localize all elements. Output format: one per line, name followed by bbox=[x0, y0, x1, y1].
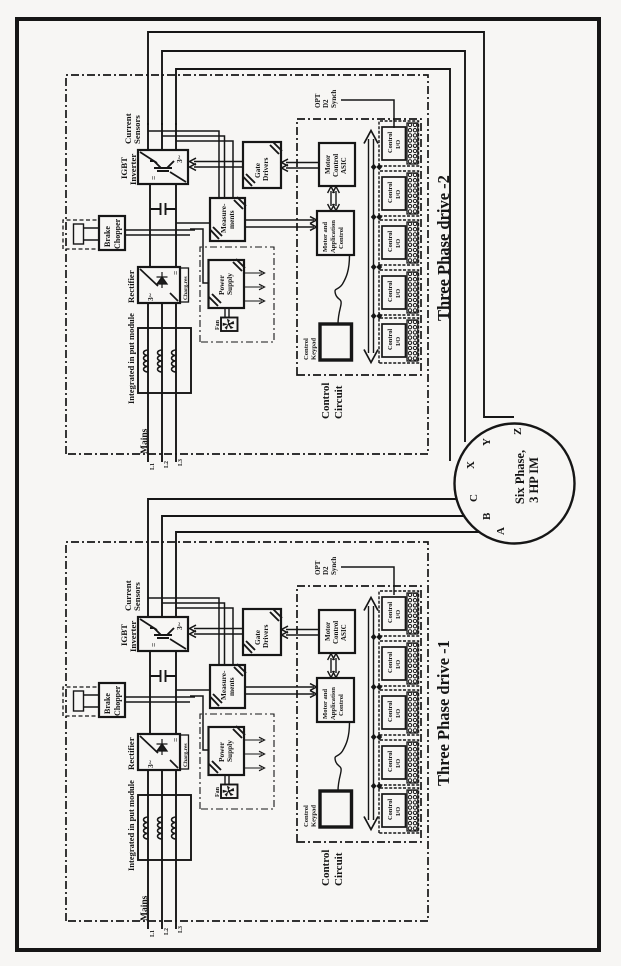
drive 2 IO board 2 bbox=[379, 171, 419, 216]
drive 2 output wire to Y bbox=[162, 51, 465, 442]
drive 2 IO board 4 bbox=[379, 270, 419, 315]
drive 2 IO board 5 bbox=[379, 318, 419, 363]
drive 1 IO board 2 bbox=[379, 641, 419, 686]
svg-text:Y: Y bbox=[481, 438, 493, 446]
drive 2 output wire to X bbox=[176, 69, 450, 461]
drive 1 IO board 5 bbox=[379, 788, 419, 833]
drive 1 bus connectors bbox=[371, 634, 382, 641]
drive 2 IO board 1 bbox=[379, 121, 419, 166]
drive 1 output wire C bbox=[176, 532, 479, 590]
drive 1 output wire A bbox=[148, 499, 456, 590]
six phase motor circle bbox=[455, 424, 575, 544]
drive 2 bus connectors bbox=[371, 164, 382, 171]
svg-text:B: B bbox=[481, 512, 493, 520]
svg-text:X: X bbox=[465, 461, 477, 469]
drive 2 output wire to Z bbox=[148, 32, 514, 417]
svg-text:A: A bbox=[495, 527, 507, 535]
drive 1 output wire B bbox=[162, 516, 464, 590]
svg-text:Z: Z bbox=[512, 428, 524, 435]
three phase drive 1 bbox=[63, 542, 428, 937]
drive 1 IO board 4 bbox=[379, 740, 419, 785]
svg-text:Three Phase drive -1: Three Phase drive -1 bbox=[434, 640, 453, 786]
svg-text:3 HP IM: 3 HP IM bbox=[527, 457, 541, 503]
svg-text:Six Phase,: Six Phase, bbox=[513, 450, 527, 504]
three phase drive 2 bbox=[63, 75, 428, 470]
drive 1 IO board 1 bbox=[379, 591, 419, 636]
drive 2 IO board 3 bbox=[379, 220, 419, 265]
drive 1 IO board 3 bbox=[379, 690, 419, 735]
svg-text:C: C bbox=[468, 494, 480, 502]
